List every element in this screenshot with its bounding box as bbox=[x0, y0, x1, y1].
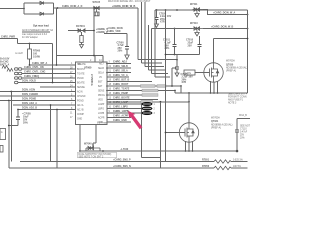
wire bottom line2 y168 bbox=[9, 165, 214, 168]
svg-text:PROG: PROG bbox=[98, 95, 105, 97]
svg-text:CHRG_BGATE: CHRG_BGATE bbox=[113, 97, 130, 100]
svg-text:C7110: C7110 bbox=[240, 129, 247, 131]
wire CHRG_SELA row3 bbox=[107, 70, 131, 73]
svg-text:CHRG_SELA: CHRG_SELA bbox=[113, 70, 128, 73]
resistor R7056 bbox=[202, 165, 248, 170]
dual diode W7002 bbox=[78, 29, 85, 32]
wire CHRG_LAMP row10 pill bbox=[107, 101, 142, 104]
capacitor C7011 bbox=[163, 28, 177, 55]
wire diode bracket bbox=[24, 3, 54, 14]
svg-text:TGATE: TGATE bbox=[77, 72, 85, 75]
resistor R7051 bbox=[202, 158, 248, 163]
wire x175 drop bbox=[174, 91, 176, 94]
svg-text:DCIN_PGND: DCIN_PGND bbox=[22, 98, 36, 101]
diode CR7002 bbox=[40, 12, 44, 15]
dual diode W7413 bbox=[190, 22, 203, 36]
svg-text:25V: 25V bbox=[240, 135, 245, 137]
svg-text:W7411: W7411 bbox=[190, 3, 198, 6]
wire bottom bus y152 bbox=[80, 150, 238, 152]
wire +CHRG_DCIN_W_B bbox=[152, 26, 249, 30]
svg-text:BOOST: BOOST bbox=[77, 69, 86, 71]
wire CHRG_DCIN_A_D bbox=[54, 5, 139, 9]
svg-text:PGND: PGND bbox=[77, 78, 84, 80]
wire vertical x56.5 bbox=[56, 8, 58, 65]
wire vertical x52.5 bbox=[52, 44, 54, 83]
wire corner x155 C7020 left bbox=[155, 10, 170, 77]
wire corner x151.6 bbox=[152, 29, 168, 74]
wire bottom line1 y161.5 bbox=[20, 159, 214, 162]
svg-text:GND: GND bbox=[77, 118, 82, 120]
svg-text:DCIN_ADJ_B: DCIN_ADJ_B bbox=[22, 107, 37, 110]
svg-text:ADJ A: ADJ A bbox=[77, 104, 84, 107]
svg-text:W7105: W7105 bbox=[93, 1, 101, 4]
svg-text:Q7030: Q7030 bbox=[226, 63, 234, 66]
svg-text:SELA: SELA bbox=[98, 71, 104, 74]
Q7031 source stubs bbox=[185, 141, 194, 152]
capacitor C7020 bbox=[155, 10, 172, 28]
svg-text:CHRG_ACPR: CHRG_ACPR bbox=[113, 115, 128, 118]
svg-text:ACIN: ACIN bbox=[77, 90, 83, 93]
svg-text:VDD: VDD bbox=[98, 99, 103, 101]
U7000 left pin names bbox=[77, 64, 86, 120]
diode CR7001 bbox=[40, 1, 44, 4]
wire CHRG_BAT row6 bbox=[107, 83, 182, 93]
wire CHRG_BST row5 bbox=[107, 79, 152, 82]
svg-text:SEE CHRG SHT 4: SEE CHRG SHT 4 bbox=[228, 94, 248, 96]
wire Q7030 drain feed bbox=[214, 38, 249, 63]
note block Opt max load bbox=[22, 25, 53, 40]
svg-text:CHRG_TGATE: CHRG_TGATE bbox=[113, 88, 130, 91]
wire CHRG_SELB row2 bbox=[107, 65, 131, 68]
wire CHRG_VDD row9 bbox=[107, 97, 158, 100]
wire branch y30.5 bbox=[68, 25, 95, 31]
svg-text:Opt max load: Opt max load bbox=[33, 25, 49, 28]
wire vertical x138 DCIN drop bbox=[138, 8, 177, 60]
svg-text:DCIN_ADJ_A: DCIN_ADJ_A bbox=[22, 102, 37, 105]
svg-text:SEE NOTE: SEE NOTE bbox=[240, 126, 250, 128]
resistor R7003 to gnd bbox=[80, 32, 84, 48]
wire DCIN_CHGND bbox=[0, 93, 76, 96]
jumper pads CHRG_CNTL_CNG bbox=[15, 71, 76, 75]
dual diode W7040 bbox=[84, 143, 100, 152]
wire CHRG_ACPR row13 bbox=[107, 115, 131, 118]
svg-text:SEE NOTE 7 ON SHT 2: SEE NOTE 7 ON SHT 2 bbox=[79, 157, 104, 159]
offpage box left small bbox=[0, 146, 3, 153]
svg-text:+CHRG_DCIN_W_A: +CHRG_DCIN_W_A bbox=[213, 12, 236, 15]
svg-text:DCIN_VOLD: DCIN_VOLD bbox=[22, 80, 36, 83]
wire DCIN_PGND bbox=[0, 98, 76, 102]
net arrow down right bbox=[236, 150, 239, 153]
svg-text:ACPR: ACPR bbox=[98, 116, 105, 119]
capacitor C7058 bbox=[8, 110, 31, 127]
svg-text:25V: 25V bbox=[188, 44, 193, 47]
wire vertical x50.5 sense P bbox=[50, 105, 52, 162]
wire top feed y55.5 bbox=[57, 55, 104, 57]
wire corner x141.7 bbox=[142, 2, 162, 63]
svg-text:LAMP: LAMP bbox=[98, 103, 105, 106]
wire C7020 top rail bbox=[155, 9, 248, 11]
svg-text:W9700A: W9700A bbox=[211, 117, 220, 120]
svg-text:GATE: GATE bbox=[185, 72, 192, 75]
svg-text:W7413: W7413 bbox=[190, 22, 198, 25]
Q7030 source stubs bbox=[210, 81, 219, 94]
svg-text:COMP: COMP bbox=[77, 114, 84, 116]
Q7031 gate wire bbox=[165, 132, 180, 134]
wire mid bus y93 bbox=[175, 92, 248, 94]
svg-text:FOR BATT CONN: FOR BATT CONN bbox=[228, 96, 247, 99]
wire CHRG_SENS row7 bbox=[107, 88, 176, 92]
svg-text:DCIN_ACIN: DCIN_ACIN bbox=[22, 89, 35, 92]
note text right mid bbox=[228, 94, 248, 105]
svg-text:CHRG_PAMP: CHRG_PAMP bbox=[113, 92, 129, 95]
svg-text:(PREF-A): (PREF-A) bbox=[211, 126, 221, 129]
svg-text:VC: VC bbox=[99, 77, 103, 79]
svg-text:for 16V adapter: for 16V adapter bbox=[22, 36, 38, 39]
svg-text:CHRG_PWR: CHRG_PWR bbox=[1, 35, 15, 38]
svg-text:X7R: X7R bbox=[182, 81, 187, 84]
svg-text:6.3V max: 6.3V max bbox=[97, 122, 108, 124]
svg-text:LOPB: LOPB bbox=[98, 113, 105, 115]
svg-text:NDS8958 A (2DUAL): NDS8958 A (2DUAL) bbox=[226, 67, 248, 70]
wire IC top stubs bbox=[95, 56, 103, 63]
svg-text:LT1505CG: LT1505CG bbox=[90, 74, 93, 86]
svg-text:U7000: U7000 bbox=[84, 67, 92, 70]
diode W7105 bbox=[93, 1, 101, 16]
svg-text:CHGND: CHGND bbox=[77, 96, 86, 98]
svg-text:+CHRG_DCIN_W_B: +CHRG_DCIN_W_B bbox=[112, 5, 135, 8]
wire corner x148.3 bbox=[148, 25, 166, 70]
net pill CHRG_LAMP bbox=[142, 102, 152, 106]
svg-text:SENSE: SENSE bbox=[77, 87, 85, 89]
svg-text:CHRG_LAMP: CHRG_LAMP bbox=[113, 101, 129, 104]
svg-text:+CHRG_SNS_N: +CHRG_SNS_N bbox=[113, 165, 131, 168]
transistor Q7031 bbox=[179, 123, 198, 142]
wire vertical left gnd drop A bbox=[8, 101, 10, 169]
capacitor C7500 bbox=[104, 27, 129, 59]
svg-text:Q7031: Q7031 bbox=[211, 120, 219, 123]
svg-text:LBPS: LBPS bbox=[98, 108, 104, 110]
svg-text:(PREF-A): (PREF-A) bbox=[226, 70, 236, 73]
svg-text:SELB: SELB bbox=[98, 68, 104, 70]
wire vertical x94 feed bbox=[93, 8, 95, 56]
svg-text:no stuff: no stuff bbox=[15, 52, 23, 55]
wire CHRG_PROG row8 bbox=[107, 92, 158, 96]
svg-text:W7040: W7040 bbox=[84, 143, 92, 146]
wire DCIN_ADJ_B bbox=[17, 107, 75, 111]
svg-text:AND FUSE F1: AND FUSE F1 bbox=[228, 99, 244, 102]
svg-text:max output current 2.6 A: max output current 2.6 A bbox=[22, 33, 47, 36]
svg-text:CHRG_ADJ: CHRG_ADJ bbox=[113, 61, 127, 64]
svg-text:CHRG_CNTL_ON: CHRG_CNTL_ON bbox=[24, 66, 44, 69]
wire CHRG_LBPS row11 pill bbox=[107, 106, 142, 109]
svg-text:G: G bbox=[1, 132, 3, 134]
svg-text:CHRG_WP_A: CHRG_WP_A bbox=[32, 62, 48, 65]
wire vertical x160.5 bbox=[160, 102, 162, 168]
wire CHRG_PWR left bbox=[0, 35, 18, 43]
offpage labels left stack bbox=[0, 58, 13, 72]
svg-text:CHRG_DCIN_A_D: CHRG_DCIN_A_D bbox=[62, 5, 83, 8]
svg-text:ADJ: ADJ bbox=[99, 62, 103, 65]
resistor R7060 bbox=[15, 44, 41, 66]
wire DCIN_VOLD bbox=[15, 80, 76, 84]
dual diode W7411 bbox=[190, 3, 203, 17]
svg-text:+CHRG_SNS_P: +CHRG_SNS_P bbox=[113, 159, 131, 162]
svg-text:W9700A: W9700A bbox=[226, 60, 235, 63]
svg-text:DOA_B: DOA_B bbox=[239, 114, 247, 117]
svg-text:ADJ B: ADJ B bbox=[77, 108, 84, 111]
wire DCIN input left bbox=[0, 8, 25, 10]
Q7030 gate offpage label bbox=[184, 70, 204, 75]
svg-text:CHRG_SELB: CHRG_SELB bbox=[113, 65, 128, 68]
wire CHRG_WP_A bbox=[29, 62, 76, 66]
wire vertical x57 sense N bbox=[56, 110, 58, 169]
net pill CHRG_LBPS bbox=[142, 107, 152, 111]
svg-text:DUAL SCHOTTKY (NO STUFF): DUAL SCHOTTKY (NO STUFF) bbox=[79, 153, 112, 156]
U7000 left pin numbers bbox=[70, 63, 73, 119]
svg-text:X7R: X7R bbox=[160, 21, 165, 24]
svg-text:NDS8958 A (2DUAL): NDS8958 A (2DUAL) bbox=[211, 123, 233, 126]
annotation arrow pink bbox=[128, 111, 142, 129]
svg-text:100 5%: 100 5% bbox=[233, 166, 241, 168]
transistor Q7030 bbox=[204, 63, 223, 82]
offpage box bottom-left bbox=[0, 129, 6, 140]
U7000 right pin wires and numbers bbox=[106, 62, 112, 113]
capacitor rail bottom y54.5 bbox=[165, 54, 200, 56]
svg-text:R7056: R7056 bbox=[202, 165, 210, 168]
wire CHRG_VC row4 bbox=[107, 74, 129, 77]
wire vertical x165.5 bbox=[165, 10, 167, 162]
svg-text:20%: 20% bbox=[240, 138, 245, 140]
svg-text:+CHRG_DCIN_W_B: +CHRG_DCIN_W_B bbox=[211, 26, 234, 29]
U7000 right pin names bbox=[98, 62, 105, 124]
capacitor C7025 bbox=[175, 55, 193, 85]
svg-text:~L7040: ~L7040 bbox=[120, 148, 129, 151]
svg-text:CHRG_FREQ: CHRG_FREQ bbox=[24, 75, 39, 78]
svg-text:CHRG_VDD: CHRG_VDD bbox=[107, 30, 121, 33]
net label CHRG_VDD stack bbox=[96, 28, 108, 34]
svg-text:NOTE 3: NOTE 3 bbox=[228, 103, 237, 105]
svg-text:DCIN_CHGND: DCIN_CHGND bbox=[22, 93, 38, 96]
jumper pads CHRG_CNTL_ON bbox=[15, 66, 76, 70]
svg-text:0.025 1%: 0.025 1% bbox=[233, 160, 243, 162]
offpage box right DOA bbox=[235, 114, 252, 151]
svg-text:RC7001: RC7001 bbox=[76, 25, 85, 28]
wire bus collector x171.5 bbox=[172, 68, 176, 86]
svg-text:CHRG_LOPB: CHRG_LOPB bbox=[113, 110, 129, 113]
svg-text:CHRG_GND: CHRG_GND bbox=[113, 119, 127, 122]
svg-text:PGND: PGND bbox=[77, 100, 84, 102]
U7000 bottom stubs bbox=[80, 125, 96, 152]
svg-text:1/16W: 1/16W bbox=[33, 56, 41, 59]
W7040 note box bbox=[78, 152, 117, 158]
wire x189 drop to Q7031 bbox=[188, 93, 190, 123]
Q7030 part text bbox=[226, 60, 248, 73]
svg-text:CHRG_BST_B: CHRG_BST_B bbox=[113, 79, 129, 82]
svg-text:R7051: R7051 bbox=[202, 158, 210, 161]
wire row 101.8 bbox=[107, 101, 189, 103]
op-amp U7000 charger controller IC bbox=[76, 60, 108, 125]
wire DCIN_ADJ_A bbox=[13, 102, 76, 105]
Q7031 part text bbox=[211, 117, 233, 130]
svg-text:CHRG_BOOT: CHRG_BOOT bbox=[113, 83, 129, 86]
wire vertical left gnd drop B bbox=[10, 92, 12, 162]
wire +CHRG_DCIN_W_A bbox=[203, 10, 248, 16]
svg-text:SENS: SENS bbox=[98, 90, 105, 92]
svg-text:BGATE: BGATE bbox=[77, 81, 85, 84]
jumper pads CHRG_FREQ bbox=[15, 75, 76, 79]
wire top rail to R7060 bbox=[18, 43, 53, 45]
svg-text:BAT: BAT bbox=[98, 85, 103, 88]
capacitor C7010 bbox=[186, 36, 202, 55]
wire CHRG_LOPB row12 pill bbox=[107, 110, 142, 113]
svg-text:CHRG_VC_A: CHRG_VC_A bbox=[113, 74, 128, 77]
wire row14 bbox=[107, 119, 131, 122]
svg-text:CHRG_LBPS: CHRG_LBPS bbox=[113, 106, 128, 109]
wire corner x145 bbox=[145, 2, 164, 67]
svg-text:BST: BST bbox=[98, 81, 103, 83]
wire row 87 stub bbox=[40, 86, 76, 88]
net pill CHRG_LOPB bbox=[142, 111, 152, 115]
svg-text:CHRG_CNTL_CNG: CHRG_CNTL_CNG bbox=[24, 71, 46, 74]
wire DCIN_ACIN bbox=[0, 89, 76, 93]
wire branch box left bbox=[142, 102, 161, 158]
svg-text:BATT_A: BATT_A bbox=[0, 64, 10, 67]
svg-text:0.47uF: 0.47uF bbox=[240, 132, 248, 134]
wire CHRG_ADJ row1 bbox=[107, 61, 131, 64]
wire right edge vertical bbox=[247, 10, 249, 93]
